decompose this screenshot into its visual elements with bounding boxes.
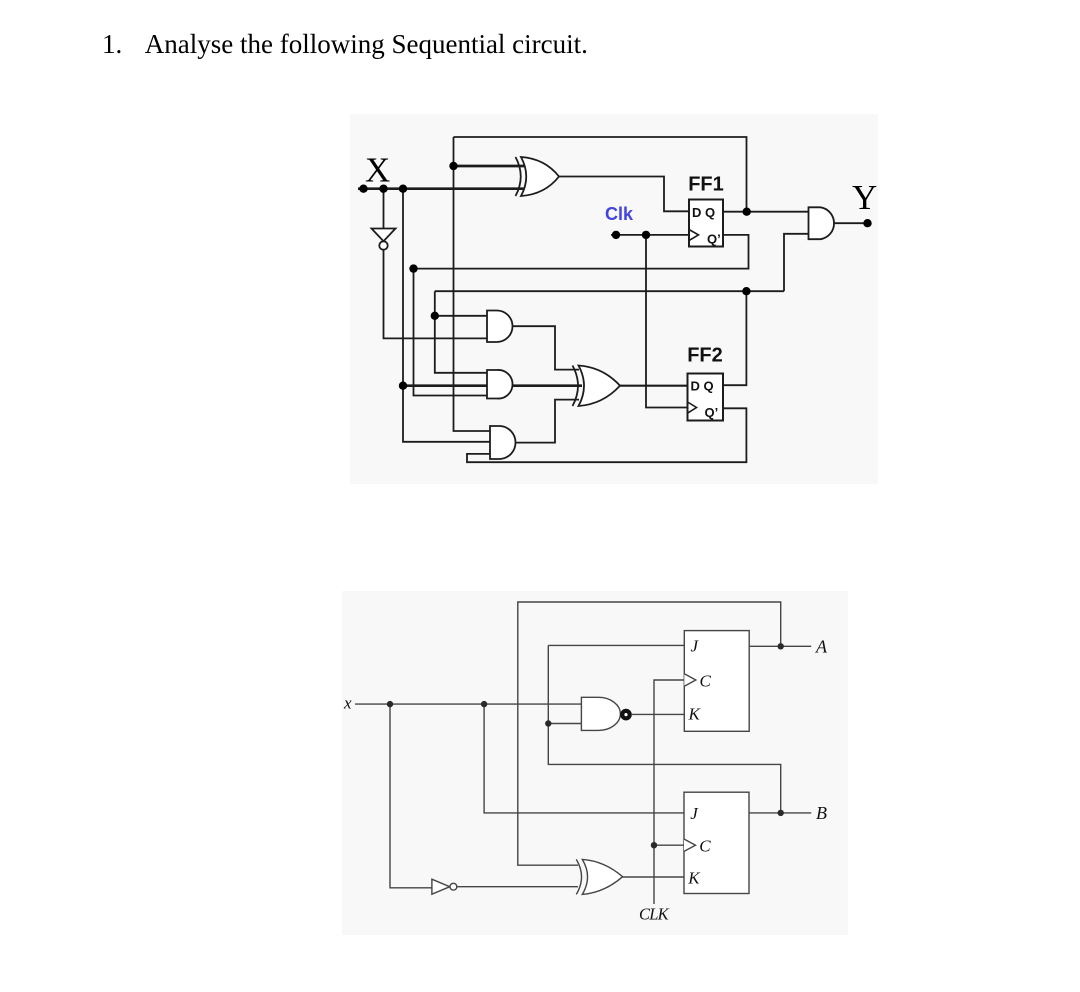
node Q' junction xyxy=(409,264,417,272)
wire left vertical to AND3 upper input xyxy=(454,137,491,431)
FF1 clock triangle xyxy=(689,230,699,241)
svg-text:x: x xyxy=(343,694,352,713)
wire x down to inverter xyxy=(390,704,432,888)
wire X input line xyxy=(358,187,526,190)
wire A feedback top xyxy=(518,602,781,865)
svg-text:C: C xyxy=(700,672,712,691)
node Y output terminal xyxy=(863,219,871,227)
svg-text:Q’: Q’ xyxy=(705,405,719,420)
wire node to XOR1 upper input xyxy=(454,165,527,168)
node A output junction xyxy=(778,643,784,649)
inverter X' xyxy=(372,229,396,242)
wire B output xyxy=(749,812,811,814)
svg-text:Y: Y xyxy=(852,178,877,217)
wire B feedback to NAND input xyxy=(548,724,780,813)
node B output junction xyxy=(778,810,784,816)
node FF1 Q top feedback junction xyxy=(449,162,457,170)
flip-flop FF1 box xyxy=(689,200,723,247)
node FF2 Q junction xyxy=(742,287,750,295)
wire X to inverter xyxy=(383,189,385,229)
svg-text:FF1: FF1 xyxy=(688,174,724,196)
wire Q' vertical to AND2 input xyxy=(414,269,488,396)
wire FF1 Q output to AND4 xyxy=(723,211,809,213)
node Clk junction xyxy=(642,231,650,239)
wire X to AND2 middle input (heavy) xyxy=(403,384,488,387)
svg-text:Q’: Q’ xyxy=(707,232,721,247)
svg-text:X: X xyxy=(365,151,390,190)
node X junction dots xyxy=(359,185,367,193)
and gate AND1 xyxy=(487,311,513,343)
svg-text:CLK: CLK xyxy=(639,905,670,924)
node x junction 1 xyxy=(387,701,393,707)
wire FF1 Q' feedback xyxy=(414,235,749,269)
and gate AND3 xyxy=(490,426,516,459)
wire inverter output to XOR3 xyxy=(457,886,578,888)
node CLK junction xyxy=(651,842,657,848)
wire inverter output to AND1 lower input xyxy=(384,250,488,339)
FF2 clock triangle xyxy=(688,402,697,413)
node B feedback junction xyxy=(545,720,551,726)
JK-B clock triangle xyxy=(684,839,696,851)
wire x input line xyxy=(355,703,581,705)
wire FF2 Q' bottom feedback to AND3 xyxy=(467,408,746,462)
svg-text:D Q: D Q xyxy=(691,379,714,394)
wire FF2 Q up to feedback line xyxy=(723,291,746,385)
svg-text:D Q: D Q xyxy=(692,205,715,220)
wire XOR2 output to FF2 D xyxy=(620,385,688,387)
wire top feedback FF1 Q xyxy=(454,137,747,212)
xor gate XOR2 xyxy=(579,366,621,407)
flip-flop JK-A box xyxy=(684,631,749,732)
flip-flop FF2 box xyxy=(688,374,724,421)
svg-text:B: B xyxy=(816,803,827,823)
inverter x' xyxy=(432,879,450,894)
node X to AND2 junction xyxy=(399,382,407,390)
wire feedback to AND4 lower input xyxy=(784,234,809,291)
svg-text:FF2: FF2 xyxy=(687,345,723,367)
svg-text:K: K xyxy=(688,705,702,724)
node x junction 2 xyxy=(481,701,487,707)
wire Clk vertical to FF2 clock xyxy=(646,235,688,408)
xor gate XOR3 xyxy=(582,859,622,894)
xor gate XOR1 xyxy=(521,157,559,196)
wire Clk line to FF1 xyxy=(611,234,689,236)
node Clk input dot xyxy=(612,231,620,239)
wire to AND1 and AND2 upper inputs xyxy=(435,291,487,373)
wire X vertical to AND2 and AND3 xyxy=(403,189,490,442)
svg-text:Clk: Clk xyxy=(605,204,634,224)
and gate AND2 xyxy=(487,370,513,399)
and gate U4 (output Y) xyxy=(809,207,835,239)
flip-flop JK-B box xyxy=(684,792,749,893)
wire B to JK-A J input xyxy=(548,645,684,723)
wire CLK vertical xyxy=(654,680,684,904)
wire XOR1 output to FF1 D xyxy=(559,177,689,212)
nand bubble xyxy=(622,711,629,718)
wire x to JK-B J input xyxy=(484,704,684,813)
scan background top xyxy=(350,114,878,484)
wire Y output xyxy=(834,222,868,224)
node FF1 Q junction xyxy=(743,208,751,216)
svg-text:K: K xyxy=(687,869,701,888)
node AND1 input junction xyxy=(431,312,439,320)
wire NAND output to K of A xyxy=(632,713,685,715)
nand gate G1 xyxy=(581,697,620,730)
wire FF2 Q feedback line xyxy=(435,290,784,292)
svg-text:C: C xyxy=(699,837,711,856)
svg-text:A: A xyxy=(815,637,828,657)
wire AND2 output to XOR2 xyxy=(513,384,583,387)
JK-A clock triangle xyxy=(684,674,696,686)
wire AND1 output to XOR2 xyxy=(513,326,580,369)
wire A output xyxy=(749,645,811,647)
wire AND3 output to XOR2 xyxy=(516,400,580,443)
wire XOR3 output to K of B xyxy=(623,876,684,878)
scan background bottom xyxy=(342,591,848,935)
